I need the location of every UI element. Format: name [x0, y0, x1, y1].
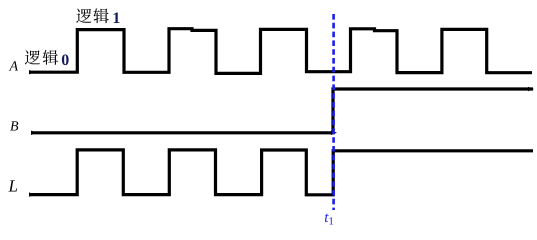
arrow left end of waveform B [31, 131, 37, 135]
arrow left end of waveform L [29, 192, 35, 196]
svg-text:A: A [9, 60, 19, 75]
waveform B [32, 89, 533, 133]
dashed line at t1 [332, 14, 335, 210]
arrow right end of B low segment [331, 131, 337, 135]
svg-text:L: L [8, 176, 18, 195]
svg-text:t1: t1 [324, 210, 334, 227]
arrow right end of waveform B high [528, 87, 534, 91]
svg-text:0: 0 [61, 52, 69, 69]
svg-text:B: B [10, 120, 19, 135]
waveform A [30, 29, 532, 74]
label 逻辑 0 (logic 0) [25, 50, 69, 69]
label 逻辑 1 (logic 1) [76, 8, 120, 26]
arrow left end of waveform A [29, 70, 35, 74]
waveform L [30, 150, 533, 195]
svg-text:1: 1 [112, 10, 120, 27]
